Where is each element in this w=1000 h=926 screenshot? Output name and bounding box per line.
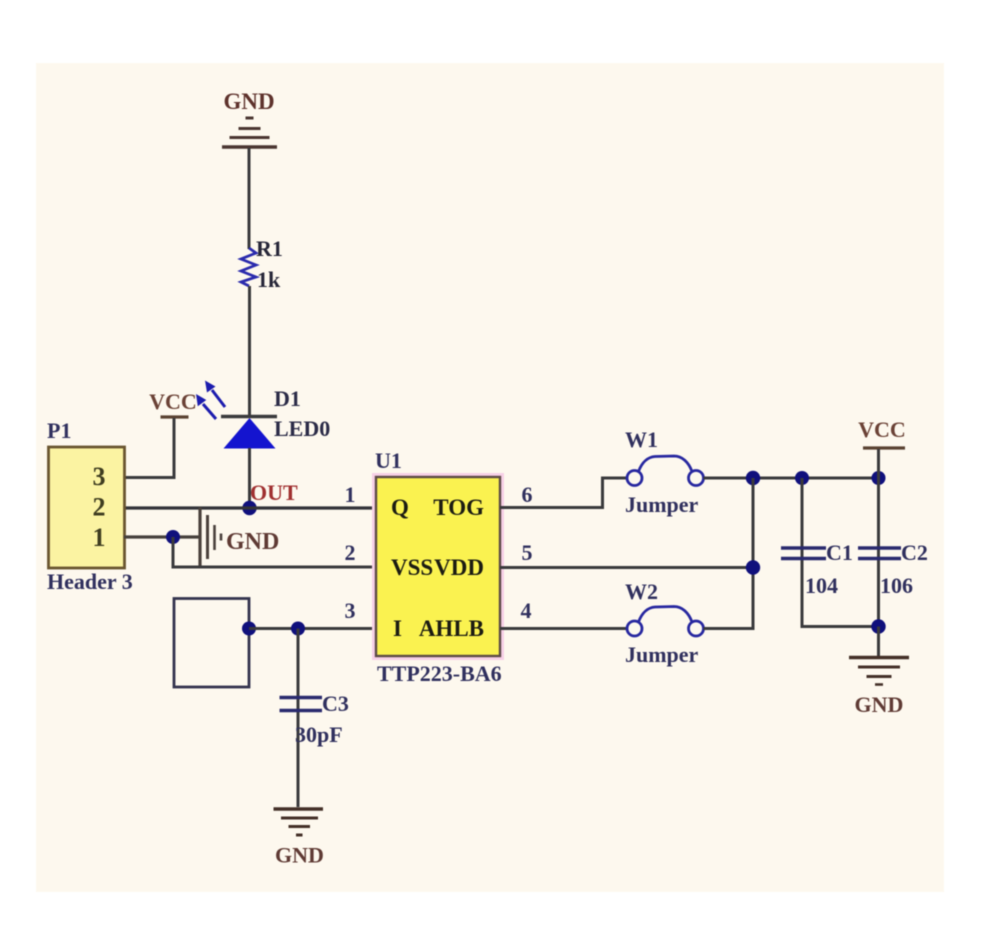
svg-text:Jumper: Jumper (625, 492, 699, 517)
wire P1 pin1 branch down to VSS line (173, 537, 376, 567)
svg-text:TTP223-BA6: TTP223-BA6 (377, 661, 502, 686)
svg-text:2: 2 (93, 493, 106, 522)
junction C3 tap (291, 622, 305, 636)
svg-text:GND: GND (226, 529, 279, 555)
svg-text:1k: 1k (257, 267, 281, 292)
junction touch pad to wire (242, 622, 256, 636)
svg-text:C1: C1 (826, 540, 853, 565)
wire W2 to tie (704, 627, 755, 630)
LED D1 (196, 381, 277, 449)
power port GND (bottom left) (274, 809, 324, 868)
junction VCC tap (872, 471, 886, 485)
jumper W2 (627, 607, 704, 637)
wire rail through C2 to ground junction (877, 478, 880, 627)
svg-text:I: I (393, 616, 402, 641)
svg-text:GND: GND (275, 843, 324, 868)
wire VCC bar down to rail (877, 449, 880, 478)
svg-text:GND: GND (223, 89, 274, 114)
power port VCC (right) (858, 417, 906, 448)
svg-text:1: 1 (93, 523, 106, 552)
svg-text:P1: P1 (47, 418, 71, 443)
svg-text:1: 1 (345, 482, 356, 507)
svg-text:Jumper: Jumper (625, 642, 699, 667)
resistor R1 (241, 248, 256, 286)
junction C1 tap top (795, 471, 809, 485)
svg-text:D1: D1 (274, 386, 301, 411)
svg-text:U1: U1 (375, 448, 402, 473)
junction P1 pin1 / VSS branch (166, 530, 180, 544)
jumper W1 (627, 456, 704, 486)
wire D1 to OUT node (248, 448, 251, 508)
junction W1/W2 vertical tie top (746, 471, 760, 485)
svg-text:104: 104 (805, 573, 838, 598)
wire junction to GND (877, 627, 880, 658)
svg-text:VDD: VDD (434, 555, 484, 580)
svg-text:3: 3 (93, 462, 106, 491)
wire GND to R1 (248, 148, 251, 249)
wire vertical tie W1-VDD-W2 (752, 478, 755, 629)
svg-text:Q: Q (391, 495, 409, 520)
svg-text:LED0: LED0 (274, 416, 330, 441)
svg-text:TOG: TOG (433, 495, 484, 520)
svg-text:R1: R1 (256, 236, 283, 261)
capacitor C2 (858, 548, 901, 559)
wire R1 to LED D1 (248, 286, 251, 416)
junction VDD/tie (746, 560, 760, 574)
wire junction through C3 to GND (297, 629, 300, 808)
svg-text:3: 3 (345, 598, 356, 623)
power port VCC (left) (149, 389, 197, 417)
svg-text:AHLB: AHLB (419, 616, 484, 641)
wire U1 pin5 to tie (500, 566, 753, 569)
svg-text:2: 2 (345, 540, 356, 565)
svg-text:C2: C2 (901, 540, 928, 565)
svg-text:VSS: VSS (391, 555, 433, 580)
svg-text:4: 4 (521, 598, 532, 623)
power port GND (top) (222, 89, 277, 147)
power port GND (sideways, at P1 pin1) (200, 508, 279, 567)
svg-text:W2: W2 (625, 579, 658, 604)
power port GND (bottom right) (849, 658, 909, 718)
wire rail through C1 to ground rail (802, 478, 879, 627)
svg-text:5: 5 (522, 540, 533, 565)
svg-text:OUT: OUT (250, 480, 298, 505)
wire U1 pin6 to W1 (500, 478, 627, 508)
wire U1 pin4 to W2 (500, 627, 627, 630)
svg-text:W1: W1 (625, 427, 658, 452)
IC U1 body (376, 477, 500, 656)
wire net OUT: P1 pin2 to U1 pin1 (124, 506, 376, 509)
wire touch pad to U1 pin3 (249, 627, 376, 630)
junction OUT node (242, 501, 256, 515)
wire W1 to VCC rail (704, 477, 879, 480)
svg-text:C3: C3 (322, 691, 349, 716)
svg-text:VCC: VCC (149, 389, 197, 414)
svg-text:GND: GND (855, 692, 904, 717)
wire P1 pin1 to GND port (124, 535, 200, 538)
connector P1 body (49, 447, 125, 568)
touch pad square (174, 599, 249, 688)
svg-text:6: 6 (522, 482, 533, 507)
junction ground rail (871, 619, 885, 633)
svg-text:30pF: 30pF (295, 722, 343, 747)
capacitor C3 (280, 698, 323, 711)
svg-text:VCC: VCC (858, 417, 906, 442)
svg-text:Header 3: Header 3 (47, 569, 133, 594)
capacitor C1 (781, 548, 826, 559)
wire VCC to P1 pin3 (124, 418, 174, 478)
svg-text:106: 106 (880, 573, 913, 598)
